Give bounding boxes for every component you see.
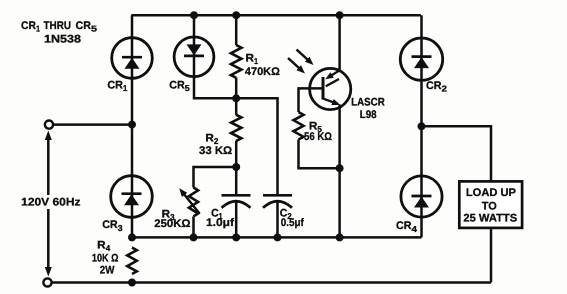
wire R3 bottom lead: [192, 216, 195, 237]
terminal input bottom: [43, 278, 51, 286]
svg-text:LASCR: LASCR: [351, 97, 385, 109]
source arrow line lower: [47, 209, 50, 270]
light arrow 2: [288, 58, 299, 68]
node top rail CR5: [190, 11, 198, 19]
svg-text:0.5μf: 0.5μf: [281, 217, 304, 229]
svg-text:120V 60Hz: 120V 60Hz: [21, 197, 81, 209]
svg-text:25 WATTS: 25 WATTS: [463, 213, 517, 225]
wire junction to load box top: [422, 126, 492, 181]
svg-text:R1: R1: [246, 52, 259, 66]
node bottom rail R4: [128, 279, 136, 287]
capacitor C1 1.0uF: [222, 194, 251, 197]
svg-text:250KΩ: 250KΩ: [154, 218, 190, 230]
node mid rail LASCR: [336, 233, 344, 241]
node CR2 CR4 load: [418, 122, 426, 130]
svg-text:CR1: CR1: [21, 20, 40, 34]
svg-text:R2: R2: [205, 132, 218, 146]
svg-text:CR4: CR4: [396, 220, 417, 234]
resistor R2 33K: [231, 115, 241, 141]
LASCR inner slant: [326, 79, 339, 86]
LASCR base bar: [322, 77, 325, 100]
LASCR cathode slant arrow: [323, 99, 333, 103]
wire input top terminal to CR1 column: [49, 123, 132, 126]
wire middle rail: [132, 236, 422, 239]
wire R2 junction to R3 top: [194, 167, 237, 188]
svg-text:56 KΩ: 56 KΩ: [304, 131, 332, 143]
svg-text:TO: TO: [482, 200, 497, 212]
resistor R5 56K: [294, 112, 304, 140]
svg-text:L98: L98: [360, 109, 377, 121]
source arrowhead up: [45, 131, 52, 141]
svg-text:R4: R4: [97, 239, 110, 253]
wire R1 junction to C2 top: [236, 98, 278, 195]
wire C2 bottom lead: [276, 202, 279, 238]
diode CR3: [111, 176, 153, 218]
wire R1 bottom / R2 top lead: [235, 78, 238, 116]
wire R1 top lead: [235, 15, 238, 45]
svg-text:CR2: CR2: [426, 80, 447, 94]
wire CR2 CR4 column: [420, 15, 423, 237]
wire bottom rail: [47, 281, 492, 284]
svg-text:THRU: THRU: [44, 20, 72, 32]
svg-text:CR3: CR3: [102, 219, 123, 233]
light arrow 1: [297, 50, 308, 60]
node R5 cathode: [336, 164, 344, 172]
LASCR U1 body: [310, 68, 351, 109]
diode CR5: [174, 37, 214, 77]
svg-text:1.0μf: 1.0μf: [206, 217, 234, 229]
wire LASCR cathode lead: [338, 105, 341, 238]
pot arrow R3: [184, 194, 200, 214]
node CR1 input terminal: [128, 121, 136, 129]
LASCR anode slant arrow: [328, 70, 340, 77]
source arrow line upper: [47, 137, 50, 195]
svg-text:2W: 2W: [100, 265, 115, 277]
wire top rail: [131, 14, 421, 17]
wire LASCR anode lead: [338, 15, 341, 70]
node top rail LASCR anode: [336, 11, 344, 19]
wire C1 bottom lead: [235, 202, 238, 238]
load box: [459, 181, 522, 228]
capacitor C2 0.5uF: [263, 194, 292, 197]
resistor R1 470K: [231, 45, 242, 78]
svg-text:CR5: CR5: [76, 20, 98, 34]
wire LASCR gate to R5 top: [299, 88, 323, 112]
diode CR1: [112, 38, 153, 79]
wire R5 bottom to cathode: [299, 140, 340, 169]
svg-text:470KΩ: 470KΩ: [245, 66, 280, 78]
source arrowhead down: [45, 267, 52, 277]
wire CR5 branch: [194, 15, 236, 98]
resistor R4 10K 2W: [127, 248, 137, 275]
svg-text:33 KΩ: 33 KΩ: [199, 145, 232, 157]
svg-text:CR5: CR5: [169, 80, 190, 94]
svg-text:CR1: CR1: [107, 80, 127, 94]
node top rail R1: [232, 11, 240, 19]
wire R2 bottom / C1 top lead: [235, 141, 238, 196]
svg-text:1N538: 1N538: [44, 34, 81, 46]
node R2 bottom: [232, 163, 240, 171]
node mid rail CR3 R4: [128, 233, 136, 241]
diode CR2: [400, 38, 442, 80]
node mid rail R3: [190, 233, 198, 241]
wire left column through CR1 CR3: [131, 15, 134, 238]
wire load box bottom to bottom rail: [490, 228, 493, 283]
svg-text:LOAD UP: LOAD UP: [466, 187, 516, 199]
terminal input top: [45, 121, 53, 129]
resistor R3 250K pot: [189, 188, 198, 217]
node mid rail C2: [274, 233, 282, 241]
node R1 bottom: [232, 94, 240, 102]
node mid rail C1: [232, 233, 240, 241]
svg-text:10K Ω: 10K Ω: [92, 252, 119, 264]
diode CR4: [401, 176, 442, 217]
